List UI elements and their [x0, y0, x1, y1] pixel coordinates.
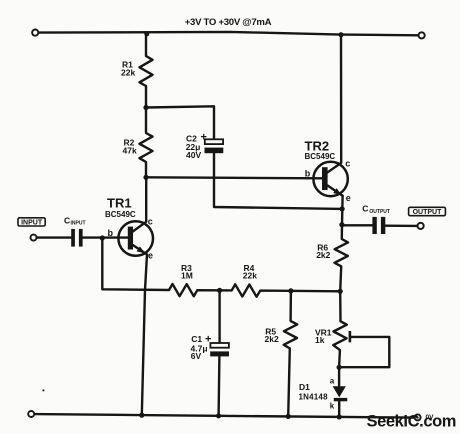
svg-text:b: b	[305, 168, 311, 178]
svg-text:C: C	[64, 216, 70, 226]
svg-text:6V: 6V	[191, 351, 202, 361]
svg-text:40V: 40V	[186, 150, 201, 160]
svg-text:D1: D1	[299, 382, 310, 392]
svg-text:OUTPUT: OUTPUT	[369, 209, 390, 215]
svg-text:1M: 1M	[181, 270, 193, 280]
svg-text:a: a	[330, 376, 335, 385]
svg-text:c: c	[148, 217, 153, 227]
svg-text:k: k	[330, 402, 335, 411]
svg-text:TR1: TR1	[107, 196, 132, 211]
svg-text:OUTPUT: OUTPUT	[413, 209, 443, 216]
svg-text:e: e	[148, 251, 153, 261]
svg-text:2k2: 2k2	[265, 334, 279, 344]
svg-text:1N4148: 1N4148	[299, 392, 329, 401]
svg-text:BC549C: BC549C	[105, 210, 136, 219]
svg-text:1k: 1k	[315, 335, 325, 345]
svg-text:47k: 47k	[123, 146, 137, 156]
svg-text:22k: 22k	[243, 270, 257, 280]
svg-text:C: C	[362, 203, 368, 213]
svg-text:+3V TO +30V @7mA: +3V TO +30V @7mA	[185, 17, 272, 28]
svg-text:e: e	[346, 193, 351, 203]
svg-text:c: c	[345, 159, 350, 169]
svg-text:INPUT: INPUT	[21, 220, 43, 227]
svg-text:22k: 22k	[121, 68, 135, 78]
svg-text:INPUT: INPUT	[71, 221, 86, 227]
svg-text:SeekIC.com: SeekIC.com	[367, 413, 457, 431]
svg-text:BC549C: BC549C	[305, 152, 336, 161]
svg-text:2k2: 2k2	[316, 250, 330, 260]
svg-text:+: +	[201, 131, 207, 143]
svg-text:b: b	[108, 228, 114, 238]
